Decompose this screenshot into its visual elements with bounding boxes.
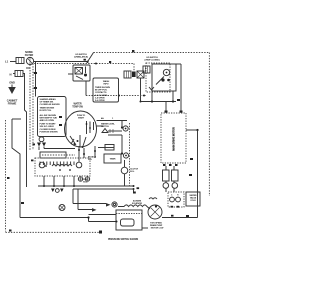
- label 9 on dashed top: [132, 50, 134, 52]
- svg-text:SOL.: SOL.: [130, 171, 135, 173]
- wires to motor top: [165, 102, 167, 114]
- pressure switch box: [116, 210, 142, 230]
- wire to timer strip: [44, 148, 75, 150]
- pump motor circle: [148, 205, 162, 219]
- timer strip box: [40, 152, 66, 158]
- svg-text:SHADED AREAS: SHADED AREAS: [40, 98, 57, 101]
- clutch solenoid circle: [121, 167, 128, 174]
- svg-text:PUSH TO START: PUSH TO START: [40, 123, 57, 126]
- wire long y119: [12, 118, 21, 120]
- svg-text:MOTOR CCW: MOTOR CCW: [151, 228, 164, 230]
- GND label: [9, 81, 15, 85]
- ground symbol: [9, 88, 15, 94]
- svg-text:1: 1: [112, 118, 114, 120]
- svg-text:(UNBALANCE): (UNBALANCE): [74, 56, 88, 59]
- svg-text:FILTER: FILTER: [25, 53, 34, 57]
- circle marker below notes: [39, 137, 44, 142]
- svg-text:FRAME: FRAME: [8, 103, 17, 106]
- lid switch dashed housing: [146, 63, 170, 92]
- label tick 2: [34, 87, 37, 89]
- junction dot right of unbalance: [95, 63, 97, 65]
- svg-text:GND: GND: [9, 81, 15, 85]
- lid switch solid box: [152, 64, 176, 91]
- wire lid switch bottom: [141, 101, 177, 103]
- switch contact triangles: [37, 143, 46, 147]
- svg-text:SWITCH: SWITCH: [101, 126, 109, 128]
- wire vertical x35: [35, 62, 37, 97]
- small plus circles: [78, 177, 82, 181]
- label a bottom left: [9, 230, 12, 232]
- lid switch arm: [156, 77, 164, 85]
- cabinet frame label: [7, 100, 18, 106]
- svg-text:START: START: [78, 117, 85, 120]
- bottom texts: [108, 239, 139, 241]
- svg-text:IN OFF POS.: IN OFF POS.: [40, 110, 52, 112]
- label tick left: [7, 177, 10, 179]
- unbalance switch label: [74, 54, 88, 59]
- contact circle upper: [123, 126, 128, 131]
- console boundary dashed vertical: [133, 64, 135, 73]
- connector block N: [15, 71, 23, 77]
- dashed box water valve solenoids right: [168, 192, 184, 207]
- wire motor right: [186, 129, 198, 131]
- coil bumps: [118, 205, 150, 209]
- wire ground rail down left: [12, 119, 20, 218]
- svg-text:TIMER: TIMER: [110, 159, 116, 161]
- svg-text:4A: 4A: [101, 117, 104, 120]
- label tick 49: [34, 72, 37, 74]
- noise filter symbol: [26, 57, 33, 64]
- text box 2: [93, 78, 119, 102]
- end blob bottom dashed: [99, 231, 102, 234]
- wire short bridge: [26, 67, 30, 69]
- wire y147: [98, 147, 114, 149]
- wire y138 vertical: [121, 135, 123, 154]
- svg-text:H: H: [177, 195, 179, 197]
- wire L1 stub: [10, 61, 16, 63]
- wire L1 to lid switch junction: [34, 61, 88, 63]
- wire neutral rail bottom: [20, 217, 89, 219]
- aux motor circle: [59, 205, 65, 211]
- main drive motor dashed box: [161, 113, 186, 163]
- connector box pair: [124, 71, 131, 78]
- cabinet boundary right dashed: [208, 53, 210, 197]
- connector box lid sw left: [143, 66, 150, 73]
- wire bottom right rail: [190, 158, 193, 160]
- timer motor double circle: [112, 202, 117, 207]
- start cap rects: [166, 166, 174, 170]
- svg-text:CLOSED AS SHOWN: CLOSED AS SHOWN: [40, 103, 61, 106]
- water level switch text: [101, 123, 116, 129]
- wire N stub: [13, 73, 15, 75]
- wire rotary stub: [97, 125, 104, 127]
- console dashed vertical: [129, 123, 131, 186]
- svg-text:L1: L1: [5, 60, 9, 64]
- svg-text:WATER: WATER: [190, 194, 198, 197]
- wire vertical from noise filter bottom: [29, 65, 31, 150]
- svg-text:DRAIN PUMP: DRAIN PUMP: [150, 224, 163, 227]
- label 47a: [177, 99, 180, 101]
- labels near notes box right: [59, 116, 62, 118]
- wire lid switch right vertical: [180, 64, 182, 113]
- rotary wiper arrows: [70, 135, 86, 147]
- agitate linkage marks: [51, 189, 64, 193]
- bleach solenoid label: [88, 156, 96, 162]
- label 4 tick: [109, 61, 111, 63]
- svg-text:3-4 OPEN: 3-4 OPEN: [95, 96, 105, 99]
- wire vertical x122 upper: [121, 121, 123, 128]
- lid switch label: [145, 57, 160, 62]
- water temp rotary switch: [65, 111, 97, 147]
- svg-text:SOLENOID: SOLENOID: [132, 203, 143, 205]
- svg-text:AND LID OPEN: AND LID OPEN: [40, 119, 55, 122]
- wire level switch to contact: [108, 130, 122, 132]
- console boundary dashed horizontal: [32, 63, 135, 65]
- noise filter label: [25, 50, 34, 57]
- svg-text:ALL SW. SHOWN: ALL SW. SHOWN: [40, 114, 57, 117]
- svg-text:TEMP SW: TEMP SW: [72, 105, 83, 108]
- wire connector down: [140, 78, 142, 102]
- circles below: [166, 181, 174, 192]
- contact circle lower: [123, 153, 128, 158]
- wire y186: [38, 185, 134, 187]
- label 4A: [101, 117, 114, 120]
- timer comb ticks: [40, 162, 74, 166]
- notes box: [38, 97, 67, 137]
- terminal N: [10, 73, 12, 77]
- svg-text:WATER LEVEL: WATER LEVEL: [101, 123, 116, 126]
- wire y189: [73, 188, 134, 190]
- svg-text:(VIEW CLOSED): (VIEW CLOSED): [145, 60, 160, 62]
- svg-text:PRESSURE SWITCH SHOWN: PRESSURE SWITCH SHOWN: [108, 239, 139, 241]
- svg-text:MAIN DRIVE MOTOR: MAIN DRIVE MOTOR: [173, 127, 176, 151]
- svg-text:INFO: INFO: [104, 84, 109, 86]
- svg-text:WASH: WASH: [103, 80, 110, 83]
- stubs below: [44, 176, 74, 186]
- motor bottom ticks: [163, 164, 166, 166]
- wire gnd: [11, 85, 13, 88]
- node junction at diagonal: [86, 61, 88, 63]
- lid switch contact circle: [163, 69, 169, 75]
- console boundary dashed vertical left inner: [32, 64, 34, 151]
- coil label: [132, 199, 143, 205]
- wire diagonal to cabinet dashed line: [88, 53, 94, 62]
- svg-text:CONTACTS: CONTACTS: [95, 91, 107, 94]
- rotary inner contacts: [87, 121, 94, 134]
- cabinet boundary top dashed: [94, 52, 210, 54]
- water level switch symbol: [102, 129, 108, 133]
- svg-text:SOL.: SOL.: [83, 182, 88, 184]
- coil: [52, 165, 72, 167]
- svg-text:5-6 OPEN: 5-6 OPEN: [95, 100, 105, 102]
- water temp switch label: [72, 103, 83, 109]
- wire right vertical: [197, 130, 199, 218]
- cabinet boundary left dashed: [5, 120, 7, 232]
- dashed mid horizontal: [86, 95, 146, 97]
- wire N down left side: [23, 74, 27, 188]
- svg-text:COLD: COLD: [190, 200, 196, 202]
- wire y135: [108, 134, 122, 136]
- svg-text:N: N: [10, 73, 12, 77]
- cabinet boundary bottom dashed: [6, 231, 101, 233]
- terminal L1: [5, 60, 9, 64]
- small box mid: [104, 154, 121, 163]
- unbalance switch box: [73, 65, 90, 81]
- svg-text:POSITION SHOWN: POSITION SHOWN: [40, 131, 58, 133]
- dashed solenoid box left: [35, 158, 90, 176]
- svg-text:C: C: [171, 195, 173, 197]
- svg-text:AGITATE: AGITATE: [133, 199, 142, 202]
- svg-text:SOL: SOL: [88, 159, 93, 161]
- label tick on L1 wire: [84, 59, 86, 61]
- wires rotary to box: [79, 146, 95, 162]
- connector block L1: [16, 58, 24, 64]
- wire rotary to contact 4A: [97, 120, 128, 122]
- water valve box: [186, 192, 200, 206]
- svg-text:VALVE: VALVE: [190, 197, 197, 200]
